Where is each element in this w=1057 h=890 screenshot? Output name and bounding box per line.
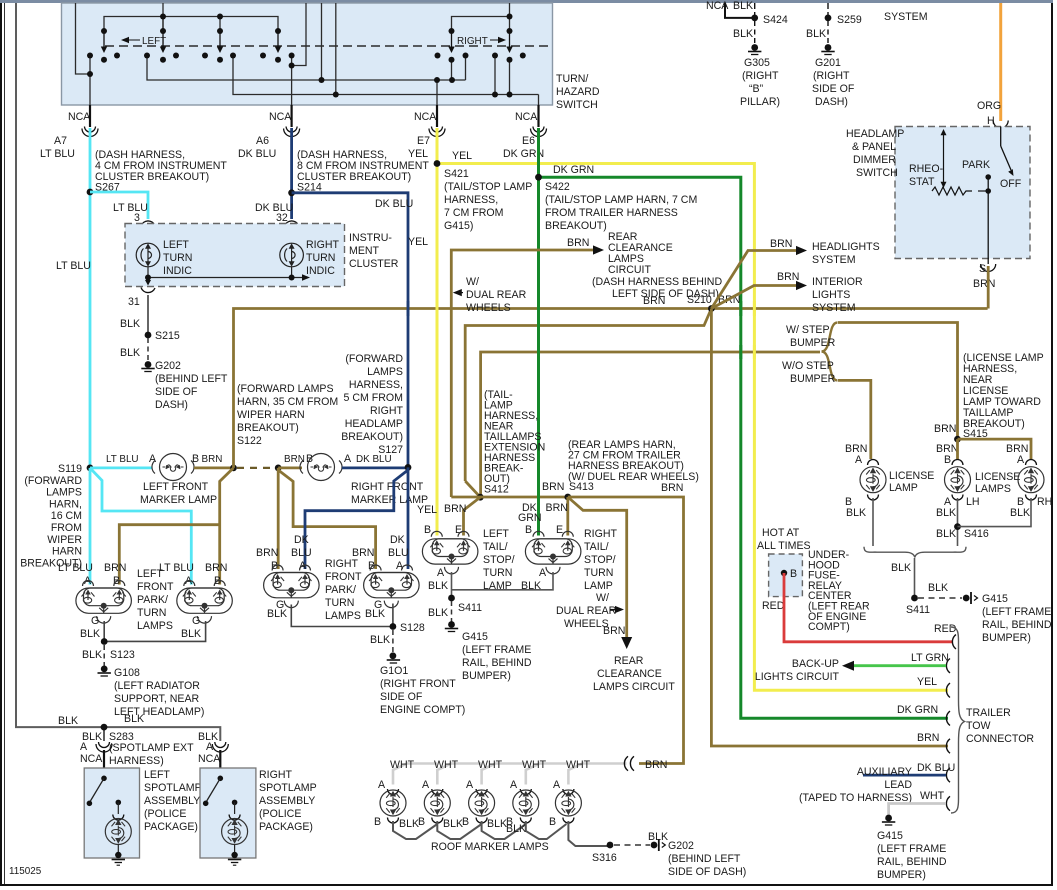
- svg-text:BRN: BRN: [917, 732, 939, 744]
- connector pin 31: [141, 278, 155, 293]
- svg-text:AUXILIARY: AUXILIARY: [857, 766, 912, 778]
- ground G108: [98, 666, 111, 677]
- wire contact 90 down to y74: [89, 56, 91, 75]
- splice S122: [230, 465, 237, 472]
- switch contact dots: [87, 14, 526, 98]
- svg-text:(SPOTLAMP EXT: (SPOTLAMP EXT: [109, 742, 194, 754]
- svg-text:RHEO-: RHEO-: [909, 163, 944, 175]
- svg-text:BLK: BLK: [1010, 507, 1030, 519]
- svg-text:BREAKOUT): BREAKOUT): [545, 220, 607, 232]
- svg-text:STOP/: STOP/: [483, 554, 515, 566]
- svg-text:PACKAGE): PACKAGE): [144, 821, 198, 833]
- wire BRN right dot to lamp1 B: [277, 468, 280, 569]
- svg-text:BREAKOUT): BREAKOUT): [237, 422, 299, 434]
- svg-text:LT BLU: LT BLU: [159, 562, 194, 574]
- svg-text:LEFT SIDE OF DASH): LEFT SIDE OF DASH): [612, 288, 719, 300]
- splice S415: [954, 436, 961, 443]
- svg-text:BLK: BLK: [181, 628, 201, 640]
- svg-text:HEADLAMP: HEADLAMP: [345, 418, 403, 430]
- splice S119: [87, 465, 94, 472]
- NCA wire into left spotlamp: [103, 750, 105, 778]
- svg-text:SWITCH: SWITCH: [856, 167, 898, 179]
- svg-text:(LEFT RADIATOR: (LEFT RADIATOR: [114, 680, 200, 692]
- svg-text:LT BLU: LT BLU: [40, 148, 75, 160]
- svg-text:LAMPS: LAMPS: [137, 620, 173, 632]
- svg-text:LICENSE: LICENSE: [975, 471, 1020, 483]
- wire BRN S210 to interior lights arrow: [711, 286, 796, 309]
- ground G415 left: [445, 621, 458, 631]
- chassis ground G202 roof: [651, 839, 666, 851]
- W/STEP bumper brace: [822, 323, 838, 381]
- svg-text:(DASH HARNESS BEHIND: (DASH HARNESS BEHIND: [592, 276, 722, 288]
- svg-text:WHT: WHT: [522, 759, 547, 771]
- svg-text:(TAIL/STOP LAMP HARN, 7 CM: (TAIL/STOP LAMP HARN, 7 CM: [545, 194, 697, 206]
- splice S411 left: [448, 595, 455, 602]
- wire top entry x335.8: [335, 3, 337, 95]
- wire DK BLU S127 to lamp2 A: [407, 467, 410, 569]
- svg-text:INSTRU-: INSTRU-: [349, 232, 392, 244]
- svg-text:G201: G201: [815, 57, 841, 69]
- W/DUAL REAR WHEELS left label: [453, 289, 463, 296]
- svg-text:DASH): DASH): [815, 96, 848, 108]
- svg-text:LT BLU: LT BLU: [56, 260, 91, 272]
- svg-text:BUMPER: BUMPER: [790, 337, 836, 349]
- svg-text:BLK: BLK: [365, 608, 385, 620]
- wire DK BLU S214 branch to S127: [292, 193, 408, 468]
- svg-text:BLK: BLK: [428, 607, 448, 619]
- chassis ground G415 right: [963, 592, 978, 604]
- svg-text:HARNESS,: HARNESS,: [349, 379, 403, 391]
- ORG wire: [999, 3, 1002, 121]
- svg-text:A: A: [539, 567, 547, 579]
- svg-text:BLK: BLK: [487, 818, 507, 830]
- svg-text:FROM TRAILER HARNESS: FROM TRAILER HARNESS: [545, 207, 678, 219]
- svg-text:FRONT: FRONT: [137, 581, 174, 593]
- connector pin 3: [141, 221, 155, 243]
- splice S259: [827, 3, 829, 18]
- svg-text:DIMMER: DIMMER: [853, 154, 896, 166]
- junction dots lower buses: [87, 71, 93, 77]
- svg-text:BLU: BLU: [388, 547, 409, 559]
- svg-text:MARKER LAMP: MARKER LAMP: [140, 494, 217, 506]
- right front park/turn lamp 2: [364, 565, 420, 608]
- svg-text:RIGHT: RIGHT: [370, 405, 403, 417]
- wiper dot drops: [451, 60, 453, 81]
- wire top entry x306: [292, 3, 306, 66]
- svg-text:LH: LH: [966, 496, 980, 508]
- NCA wire E7: [414, 105, 437, 127]
- svg-text:LIGHTS: LIGHTS: [812, 289, 850, 301]
- page top slate bar: [0, 0, 1053, 3]
- ground G101: [387, 652, 400, 663]
- svg-text:RH: RH: [1037, 496, 1052, 508]
- svg-text:BLU: BLU: [291, 547, 312, 559]
- wire BRN marker to S122: [194, 466, 234, 469]
- connector arcs column: [946, 635, 956, 811]
- svg-text:YEL: YEL: [417, 504, 437, 516]
- svg-text:(LEFT FRAME: (LEFT FRAME: [462, 644, 531, 656]
- wire top entry x509.5: [509, 3, 511, 31]
- svg-text:BRN: BRN: [202, 454, 223, 465]
- svg-text:NCA: NCA: [515, 111, 538, 123]
- svg-text:BRN: BRN: [444, 503, 466, 515]
- svg-text:TAIL/: TAIL/: [584, 541, 609, 553]
- svg-text:A7: A7: [54, 135, 67, 147]
- svg-text:ASSEMBLY: ASSEMBLY: [259, 795, 315, 807]
- park contact dot: [985, 174, 991, 180]
- svg-text:G305: G305: [744, 57, 770, 69]
- right front park/turn lamp 1: [264, 565, 320, 608]
- svg-text:G108: G108: [114, 667, 140, 679]
- BLK underbrace: [864, 547, 966, 558]
- wire LT BLU A7 to S267 to S119: [89, 128, 92, 468]
- svg-text:S412: S412: [484, 484, 509, 496]
- wire LT BLU S267 to cluster pin 3: [90, 192, 148, 219]
- svg-text:ORG: ORG: [977, 100, 1001, 112]
- svg-text:RIGHT: RIGHT: [325, 558, 358, 570]
- svg-text:SIDE OF: SIDE OF: [380, 691, 423, 703]
- svg-text:LEFT: LEFT: [144, 769, 170, 781]
- BLK single license to brace: [872, 498, 874, 546]
- wire BRN S413 to roof marker feed: [568, 497, 684, 764]
- svg-text:B: B: [418, 816, 425, 828]
- left spotlamp assembly box: [84, 768, 139, 858]
- svg-text:SYSTEM: SYSTEM: [812, 254, 856, 266]
- connector pin 32: [285, 221, 299, 243]
- wire rheostat to park wire: [978, 190, 988, 192]
- svg-text:ALL TIMES: ALL TIMES: [757, 540, 811, 552]
- svg-text:E7: E7: [417, 135, 430, 147]
- BLK center license to S416: [957, 498, 959, 546]
- svg-text:(RIGHT FRONT: (RIGHT FRONT: [380, 678, 456, 690]
- svg-text:(RIGHT: (RIGHT: [742, 70, 779, 82]
- svg-text:YEL: YEL: [452, 150, 472, 162]
- BLK wire pin31 to S215: [147, 295, 149, 335]
- svg-text:TURN/: TURN/: [556, 73, 588, 85]
- svg-text:B: B: [549, 816, 556, 828]
- BLK dashed to G415 chassis: [918, 597, 962, 599]
- wire top entry x75.5: [76, 3, 91, 74]
- wire contact 291.6 down: [291, 56, 293, 66]
- svg-text:(LEFT FRAME: (LEFT FRAME: [982, 606, 1051, 618]
- wire contact 465.5 to y80: [465, 56, 467, 81]
- wire RED fuse B to trailer: [784, 573, 952, 642]
- svg-text:31: 31: [128, 296, 140, 308]
- svg-text:RED: RED: [934, 623, 957, 635]
- svg-text:BRN: BRN: [973, 278, 995, 290]
- svg-text:LAMPS: LAMPS: [367, 366, 403, 378]
- splice S412: [477, 494, 484, 501]
- wire BRN y352 brace line: [481, 352, 820, 497]
- svg-text:BUMPER): BUMPER): [462, 670, 511, 682]
- splice S215: [145, 332, 152, 339]
- svg-text:(BEHIND LEFT: (BEHIND LEFT: [155, 373, 228, 385]
- svg-text:S411: S411: [458, 602, 482, 614]
- svg-text:HARN: HARN: [52, 546, 82, 558]
- svg-text:“B”: “B”: [749, 83, 764, 95]
- wire contact 147 to y80 bus: [147, 56, 466, 81]
- svg-text:BRN: BRN: [934, 423, 956, 435]
- svg-text:BLK: BLK: [936, 528, 956, 540]
- ground G415 bottom: [882, 815, 895, 825]
- svg-text:A: A: [344, 453, 352, 465]
- wire LT BLU S119 to lamp1 A: [89, 468, 92, 585]
- WHT wire chain: [393, 764, 626, 785]
- wire BRN S210 down to trailer BRN: [711, 309, 948, 747]
- svg-text:DK BLU: DK BLU: [238, 148, 276, 160]
- svg-text:G202: G202: [668, 840, 694, 852]
- svg-text:(FORWARD LAMPS: (FORWARD LAMPS: [237, 383, 334, 395]
- BLK wire from top to S283: [16, 3, 220, 741]
- connector A6: [284, 127, 300, 137]
- splice S123: [101, 638, 108, 645]
- svg-text:B: B: [790, 568, 797, 580]
- svg-text:LIGHTS CIRCUIT: LIGHTS CIRCUIT: [755, 671, 840, 683]
- turn/hazard switch box: [62, 3, 553, 105]
- roof marker lamp bulbs: [388, 789, 399, 795]
- svg-text:BLK: BLK: [120, 318, 140, 330]
- rheostat arrow: [941, 129, 947, 188]
- svg-text:ASSEMBLY: ASSEMBLY: [144, 795, 200, 807]
- connector A right spotlamp: [212, 742, 228, 752]
- svg-text:BLK: BLK: [936, 507, 956, 519]
- svg-text:DASH): DASH): [155, 399, 188, 411]
- svg-text:PARK/: PARK/: [325, 584, 356, 596]
- page inner left border line: [4, 3, 6, 884]
- svg-text:BRN: BRN: [645, 759, 667, 771]
- svg-text:RAIL, BEHIND: RAIL, BEHIND: [982, 619, 1052, 631]
- splice S128: [390, 623, 397, 630]
- wire BRN dot to right marker lamp: [278, 466, 302, 469]
- ground G202: [141, 361, 154, 371]
- svg-text:INDIC: INDIC: [306, 265, 335, 277]
- splice S422: [535, 174, 542, 181]
- wiper vertical stubs: [162, 17, 164, 32]
- svg-text:HOT AT: HOT AT: [762, 527, 800, 539]
- svg-text:BRN: BRN: [661, 482, 683, 494]
- wire top entry x321.5: [321, 3, 323, 80]
- svg-text:BLK: BLK: [928, 582, 948, 594]
- svg-text:RIGHT: RIGHT: [259, 769, 292, 781]
- svg-text:(RIGHT: (RIGHT: [813, 70, 850, 82]
- svg-text:LEFT: LEFT: [142, 36, 166, 47]
- svg-text:A: A: [422, 779, 430, 791]
- svg-text:G202: G202: [155, 360, 181, 372]
- NCA wire A6: [269, 105, 292, 127]
- svg-text:CLEARANCE: CLEARANCE: [597, 668, 662, 680]
- svg-text:SIDE OF: SIDE OF: [155, 386, 198, 398]
- instrument cluster box: [125, 224, 345, 287]
- svg-text:BRN: BRN: [284, 454, 305, 465]
- splice S416: [954, 523, 961, 530]
- svg-text:GRN: GRN: [518, 512, 542, 524]
- svg-text:DUAL REAR: DUAL REAR: [466, 289, 527, 301]
- svg-text:SIDE OF DASH): SIDE OF DASH): [668, 866, 746, 878]
- svg-text:W/: W/: [466, 276, 479, 288]
- svg-text:WHEELS: WHEELS: [466, 302, 511, 314]
- svg-text:B: B: [374, 816, 381, 828]
- RIGHT arrow label: [457, 36, 506, 47]
- svg-text:YEL: YEL: [917, 676, 937, 688]
- wire BRN y497 S412 to S413: [451, 496, 568, 499]
- NCA wire A7: [68, 105, 91, 127]
- wire contact 495 to y94.5: [494, 56, 496, 95]
- svg-text:PARK: PARK: [962, 159, 990, 171]
- switch upper bus left: [104, 17, 278, 32]
- svg-text:LEFT: LEFT: [483, 528, 509, 540]
- connector H: [993, 121, 1008, 129]
- BLK wire right lamps G to S128: [291, 604, 393, 627]
- svg-text:A: A: [80, 741, 88, 753]
- S127 harness label: [341, 353, 403, 456]
- svg-text:WHT: WHT: [390, 759, 415, 771]
- svg-text:DUAL REAR: DUAL REAR: [556, 605, 617, 617]
- rheostat zigzag: [932, 187, 972, 195]
- svg-text:W/O STEP: W/O STEP: [782, 360, 834, 372]
- svg-text:BLK: BLK: [443, 818, 463, 830]
- svg-text:DK GRN: DK GRN: [897, 704, 938, 716]
- wire top entry x163: [162, 3, 164, 31]
- svg-text:(FORWARD: (FORWARD: [24, 475, 82, 487]
- svg-text:MENT: MENT: [349, 245, 380, 257]
- svg-text:A: A: [1017, 454, 1025, 466]
- svg-text:A: A: [378, 779, 386, 791]
- svg-text:B: B: [944, 454, 951, 466]
- splice S283: [101, 724, 108, 731]
- svg-text:DK: DK: [294, 534, 309, 546]
- svg-text:HARN,: HARN,: [49, 498, 82, 510]
- svg-text:BRN: BRN: [542, 481, 564, 493]
- svg-text:NCA: NCA: [68, 111, 91, 123]
- license lamp center LH: [952, 460, 963, 466]
- svg-text:TURN: TURN: [584, 567, 613, 579]
- svg-text:LAMP: LAMP: [889, 482, 918, 494]
- wire BRN w/step bumper to S415: [838, 323, 958, 440]
- svg-text:CONNECTOR: CONNECTOR: [966, 733, 1034, 745]
- trailer brace: [951, 627, 965, 813]
- svg-text:TOW: TOW: [966, 720, 991, 732]
- wire BRN long horizontal S210 line: [234, 309, 988, 468]
- svg-text:(LEFT FRAME: (LEFT FRAME: [877, 843, 946, 855]
- svg-text:LAMPS CIRCUIT: LAMPS CIRCUIT: [593, 681, 675, 693]
- svg-text:RED: RED: [762, 600, 785, 612]
- wire WHT trailer ground: [889, 804, 946, 817]
- splice S421: [434, 160, 441, 167]
- ground G201: [821, 44, 834, 54]
- svg-text:7 CM FROM: 7 CM FROM: [444, 207, 503, 219]
- left front park/turn lamp 2: [177, 581, 233, 624]
- svg-text:BLK: BLK: [124, 713, 144, 725]
- svg-text:BLK: BLK: [58, 715, 78, 727]
- svg-text:E: E: [556, 524, 563, 536]
- connector E6: [531, 127, 547, 137]
- svg-text:RAIL, BEHIND: RAIL, BEHIND: [462, 657, 532, 669]
- switch dashed travel line: [105, 45, 550, 47]
- svg-text:HARNESS): HARNESS): [109, 755, 164, 767]
- svg-text:TRAILER: TRAILER: [966, 707, 1011, 719]
- svg-text:SUPPORT, NEAR: SUPPORT, NEAR: [114, 693, 200, 705]
- svg-text:PARK/: PARK/: [137, 594, 168, 606]
- svg-text:S259: S259: [837, 14, 862, 26]
- svg-text:NCA: NCA: [269, 111, 292, 123]
- svg-text:LT BLU: LT BLU: [106, 454, 139, 465]
- svg-text:DK BLU: DK BLU: [375, 198, 413, 210]
- S412 harness label: [484, 389, 545, 496]
- svg-text:WHT: WHT: [434, 759, 459, 771]
- splice dot right: [275, 465, 282, 472]
- svg-text:WHT: WHT: [566, 759, 591, 771]
- BLK brace to S411 right: [914, 558, 916, 598]
- svg-text:RIGHT: RIGHT: [306, 239, 339, 251]
- svg-text:G: G: [91, 615, 99, 627]
- svg-text:NCA: NCA: [80, 753, 103, 765]
- svg-text:BLK: BLK: [428, 580, 448, 592]
- svg-text:(BEHIND LEFT: (BEHIND LEFT: [668, 853, 741, 865]
- svg-text:A: A: [437, 567, 445, 579]
- svg-text:G: G: [192, 615, 200, 627]
- lamp right turn indic: [280, 243, 304, 277]
- svg-text:S424: S424: [763, 14, 788, 26]
- svg-text:& PANEL: & PANEL: [852, 141, 896, 153]
- svg-text:LAMPS: LAMPS: [46, 487, 82, 499]
- svg-text:(POLICE: (POLICE: [144, 808, 186, 820]
- svg-text:RIGHT FRONT: RIGHT FRONT: [351, 481, 424, 493]
- svg-text:BLK: BLK: [846, 507, 866, 519]
- svg-text:BUMPER): BUMPER): [982, 632, 1031, 644]
- svg-text:G415: G415: [462, 631, 488, 643]
- switch upper bus right: [452, 17, 510, 32]
- svg-text:BLK: BLK: [733, 28, 753, 40]
- ground G305: [748, 44, 761, 54]
- connector A7: [82, 127, 98, 137]
- svg-text:BLK: BLK: [80, 628, 100, 640]
- svg-text:S122: S122: [237, 435, 262, 447]
- svg-text:WHEELS: WHEELS: [564, 618, 609, 630]
- connector E7: [429, 127, 445, 137]
- wire BRN S122 to lamp2 B: [220, 468, 234, 585]
- svg-text:BUMPER: BUMPER: [790, 373, 836, 385]
- svg-text:CIRCUIT: CIRCUIT: [608, 264, 651, 276]
- wire right marker A to S127: [342, 466, 408, 469]
- wire BRN S413 dual-wheels branch down arrow: [568, 497, 627, 637]
- svg-text:DK BLU: DK BLU: [917, 762, 955, 774]
- dashed harness S122 link: [237, 467, 275, 469]
- splice S210: [708, 305, 715, 312]
- splice S411 right: [911, 595, 918, 602]
- svg-text:W/ STEP: W/ STEP: [786, 324, 830, 336]
- wire BRN S412 to left tail E: [464, 497, 481, 535]
- svg-text:FROM: FROM: [51, 522, 82, 534]
- svg-text:B: B: [424, 524, 431, 536]
- splice S424: [751, 15, 758, 22]
- svg-text:LAMP: LAMP: [584, 580, 613, 592]
- svg-text:E6: E6: [522, 135, 535, 147]
- wire DK BLU S214 to pin 32: [290, 128, 293, 219]
- svg-text:A: A: [396, 560, 404, 572]
- wire BRN S413 to right tail E: [566, 497, 569, 536]
- splice S127: [405, 464, 412, 471]
- svg-text:TURN: TURN: [483, 567, 512, 579]
- wire BRN S415 to RH license lamp: [958, 439, 1032, 459]
- svg-text:RIGHT: RIGHT: [584, 528, 617, 540]
- svg-text:DK GRN: DK GRN: [553, 164, 594, 176]
- svg-text:G415): G415): [444, 220, 473, 232]
- svg-text:LT BLU: LT BLU: [113, 202, 148, 214]
- svg-text:WIPER: WIPER: [47, 534, 82, 546]
- svg-text:W/: W/: [596, 592, 609, 604]
- svg-text:WHT: WHT: [478, 759, 503, 771]
- headlamp & panel dimmer switch box: [895, 127, 1030, 259]
